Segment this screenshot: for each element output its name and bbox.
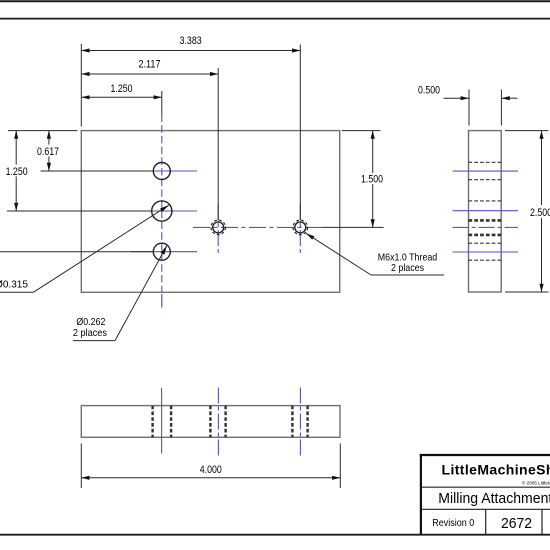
extension line hole column vertical [161, 91, 163, 115]
hole A (O0.262) [153, 163, 170, 180]
extension line thread E vertical [299, 45, 301, 221]
sheet frame bottom [0, 534, 550, 536]
hidden line hole column left [151, 406, 153, 438]
title block divider revision/number [485, 509, 487, 534]
dimension 0.617 vertical [48, 131, 50, 145]
svg-text:© 2005 LittleMachineShop.com: © 2005 LittleMachineShop.com [522, 479, 550, 485]
hidden line hole A bottom [469, 179, 502, 181]
center line horizontal thread axis (dash-dot blue) [193, 226, 325, 228]
dimension 1.250 horizontal [81, 96, 162, 98]
center line tail below plate [161, 294, 163, 308]
thread hole D major (dashed) [211, 220, 226, 235]
dimension 4.000 [80, 444, 82, 489]
dimension 0.500 [468, 90, 470, 126]
dimension 1.500 vertical [342, 130, 381, 132]
extension line hole B row [7, 210, 151, 212]
hidden line hole A top [469, 161, 502, 163]
svg-text:1.250: 1.250 [6, 166, 28, 178]
center line horizontal hole B [131, 210, 197, 212]
hidden line thread D left [209, 406, 211, 438]
title block row line 2 [422, 508, 550, 510]
plate outline (top view) [81, 131, 339, 293]
hidden line cluster hole B bottom / thread top [469, 219, 502, 222]
title block left border [420, 454, 422, 535]
thread hole E major (dashed) [293, 220, 308, 235]
center line hole A side [453, 170, 518, 172]
hidden line hole B top [469, 200, 502, 202]
center line thread D bottom view [217, 388, 219, 457]
svg-text:2.500: 2.500 [530, 207, 550, 219]
center line thread E bottom view [299, 388, 301, 457]
svg-text:2672: 2672 [501, 515, 532, 532]
svg-text:1.250: 1.250 [111, 83, 133, 95]
svg-text:0.500: 0.500 [418, 85, 440, 97]
center line horizontal hole A [131, 170, 197, 172]
leader O0.262 [73, 340, 115, 342]
svg-text:2 places: 2 places [391, 262, 424, 274]
extension line hole A row [41, 170, 153, 172]
extension line top edge left [8, 130, 78, 132]
svg-text:Ø0.315: Ø0.315 [0, 278, 28, 290]
center line vertical thread hole D [217, 204, 219, 253]
thread hole D minor [213, 222, 224, 233]
svg-text:2.117: 2.117 [139, 59, 161, 71]
center line horizontal hole C [131, 251, 197, 253]
center line vertical (hole column, blue dashed) [161, 115, 163, 293]
hidden line cluster thread bottom [469, 234, 502, 237]
title block divider right [541, 509, 543, 534]
hidden line thread E left [291, 406, 293, 438]
hole B (O0.315) [152, 201, 172, 221]
leader M6x1.0 [371, 274, 444, 276]
dimension 1.250 vertical [15, 131, 17, 165]
svg-text:4.000: 4.000 [200, 464, 222, 476]
dimension 2.500 [505, 130, 549, 132]
hidden line hole C bottom [469, 259, 502, 261]
title block top border [420, 454, 550, 456]
leader O0.315 [0, 291, 34, 293]
sheet outer border top [0, 0, 550, 2]
dimension 3.383 [81, 50, 300, 52]
extension line thread D vertical [217, 68, 219, 221]
title block row line 1 [422, 486, 550, 488]
center line vertical thread hole E [299, 204, 301, 253]
svg-text:1.500: 1.500 [361, 174, 383, 186]
svg-text:Revision 0: Revision 0 [432, 518, 474, 529]
svg-text:3.383: 3.383 [180, 35, 202, 47]
extension line hole C row [0, 251, 153, 253]
svg-text:2 places: 2 places [73, 327, 107, 339]
svg-text:LittleMachineShop.com: LittleMachineShop.com [442, 462, 550, 478]
center line hole column bottom view [161, 388, 163, 454]
hidden line thread E right [306, 406, 308, 438]
hidden line hole C top [469, 242, 502, 244]
svg-text:Ø0.262: Ø0.262 [76, 316, 105, 328]
dimension 2.117 [81, 73, 218, 75]
svg-text:Milling Attachment: Milling Attachment [438, 490, 550, 507]
hidden line hole column right [170, 406, 172, 438]
center line hole C side [453, 251, 518, 253]
hole C (O0.262) [153, 243, 170, 260]
sheet inner frame top [0, 18, 550, 20]
bottom view outline [81, 406, 340, 438]
svg-text:0.617: 0.617 [37, 146, 59, 158]
side view outline [469, 131, 502, 292]
hidden line thread D right [224, 406, 226, 438]
thread hole E minor [295, 222, 306, 233]
extension line left vertical [80, 44, 82, 127]
center line thread side (dash-dot) [453, 226, 518, 228]
center line hole B side [453, 210, 518, 212]
